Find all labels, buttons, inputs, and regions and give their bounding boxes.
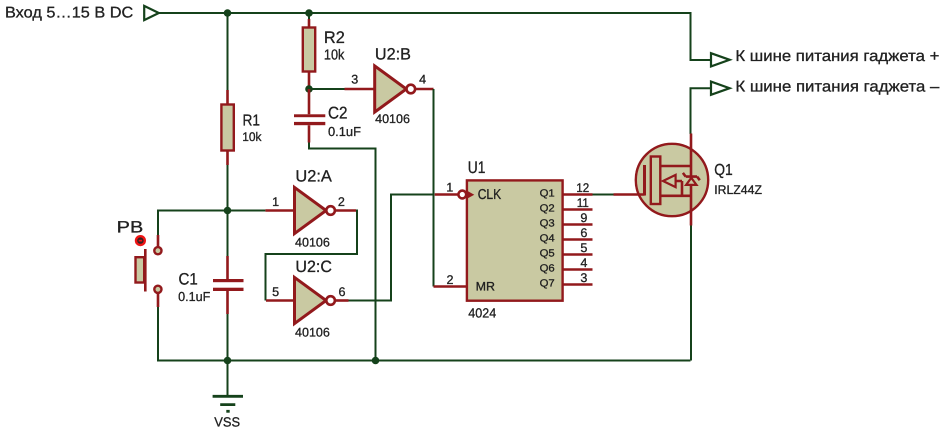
wire top rail to + output corner [158,13,711,60]
svg-text:1: 1 [272,195,279,209]
svg-text:U1: U1 [468,158,486,177]
svg-text:C2: C2 [328,104,348,123]
resistor R2 [303,13,345,89]
wire minus branch to MOSFET drain [691,88,712,134]
node junction R1 PB C1 U2:A [224,207,232,215]
wire U2:A output to U2:C input [266,211,358,301]
resistor R1 [221,90,262,165]
wire MOSFET source to bottom rail [690,226,692,361]
pin Q3 stub 9 [563,223,593,226]
svg-text:0.1uF: 0.1uF [328,124,361,139]
op-amp U2:A inverter 40106 [265,168,356,250]
svg-text:3: 3 [580,271,587,285]
wire U2:B output down to MR [433,89,435,287]
svg-text:40106: 40106 [295,235,330,249]
svg-text:VSS: VSS [214,414,240,429]
svg-text:Q2: Q2 [540,204,555,215]
svg-text:U2:B: U2:B [375,45,411,63]
IC U1 4024 [434,158,593,320]
svg-text:9: 9 [580,211,587,225]
pin Q5 stub 5 [563,253,593,256]
switch PB [117,219,162,307]
node junction bottom rail C1 column [224,357,232,365]
svg-text:4: 4 [580,256,587,270]
svg-text:Q1: Q1 [540,189,555,200]
svg-text:Q4: Q4 [540,234,555,245]
wire R1 column lower [227,165,229,211]
svg-text:0.1uF: 0.1uF [178,289,210,304]
op-amp U2:C inverter 40106 [266,258,349,339]
wire bottom rail [158,307,691,361]
wire junction to U2:B input [309,88,345,90]
svg-text:C1: C1 [179,271,198,289]
svg-text:U2:A: U2:A [295,168,332,186]
svg-text:Вход 5…15 В DC: Вход 5…15 В DC [5,4,133,21]
pin Q4 stub 6 [563,238,593,241]
svg-text:U2:C: U2:C [295,258,332,276]
pin Q1 stub 12 [563,193,593,196]
svg-text:MR: MR [476,280,496,294]
svg-text:4024: 4024 [468,305,496,320]
svg-text:Q6: Q6 [540,264,555,275]
output terminal plus [711,48,939,66]
wire R1 column upper [227,13,229,90]
svg-text:10k: 10k [324,47,345,63]
node junction top rail R2 column [305,9,313,17]
svg-text:12: 12 [576,181,589,195]
wire U2:C output to U1 CLK [349,195,433,301]
wire junction to U2:A input [228,210,266,212]
pin Q2 stub 11 [563,208,593,211]
svg-text:PB: PB [117,219,144,237]
svg-text:CLK: CLK [478,187,502,203]
capacitor C2 [294,89,361,143]
svg-text:R1: R1 [243,113,261,130]
wire Q1 pin to MOSFET gate [593,194,614,196]
svg-text:2: 2 [447,273,454,287]
svg-text:40106: 40106 [375,112,410,126]
ground VSS [213,361,243,430]
wire junction to PB top [158,211,228,236]
output terminal minus [711,78,940,95]
pin Q7 stub 3 [563,283,593,286]
pin Q6 stub 4 [563,268,593,271]
svg-text:Q1: Q1 [714,162,733,179]
svg-text:3: 3 [351,73,358,87]
svg-text:10k: 10k [242,130,262,144]
transistor Q1 IRLZ44Z MOSFET [614,134,763,226]
svg-text:6: 6 [580,226,587,240]
svg-text:К шине питания гаджета –: К шине питания гаджета – [735,78,939,95]
svg-text:6: 6 [339,285,346,299]
node junction bottom rail C2 column [372,357,380,365]
svg-text:2: 2 [338,195,345,209]
svg-text:5: 5 [580,241,587,255]
svg-text:11: 11 [577,196,589,210]
svg-text:IRLZ44Z: IRLZ44Z [714,183,762,197]
wire C1 bottom to rail [227,314,229,361]
node junction R2 C2 U2:B [305,85,313,93]
svg-text:Q7: Q7 [540,279,555,290]
svg-text:R2: R2 [324,28,345,47]
svg-text:40106: 40106 [295,326,330,340]
svg-text:1: 1 [446,181,453,195]
op-amp U2:B inverter 40106 [345,45,434,126]
svg-text:К шине питания гаджета +: К шине питания гаджета + [735,48,939,65]
capacitor C1 [178,211,243,315]
svg-text:5: 5 [272,285,279,299]
svg-text:Q3: Q3 [540,219,555,230]
input terminal Вход 5...15 В DC [5,4,159,21]
svg-text:Q5: Q5 [540,249,555,260]
svg-text:4: 4 [419,73,426,87]
node junction top rail R1 column [224,9,232,17]
wire C2 bottom to ground rail [309,143,376,361]
